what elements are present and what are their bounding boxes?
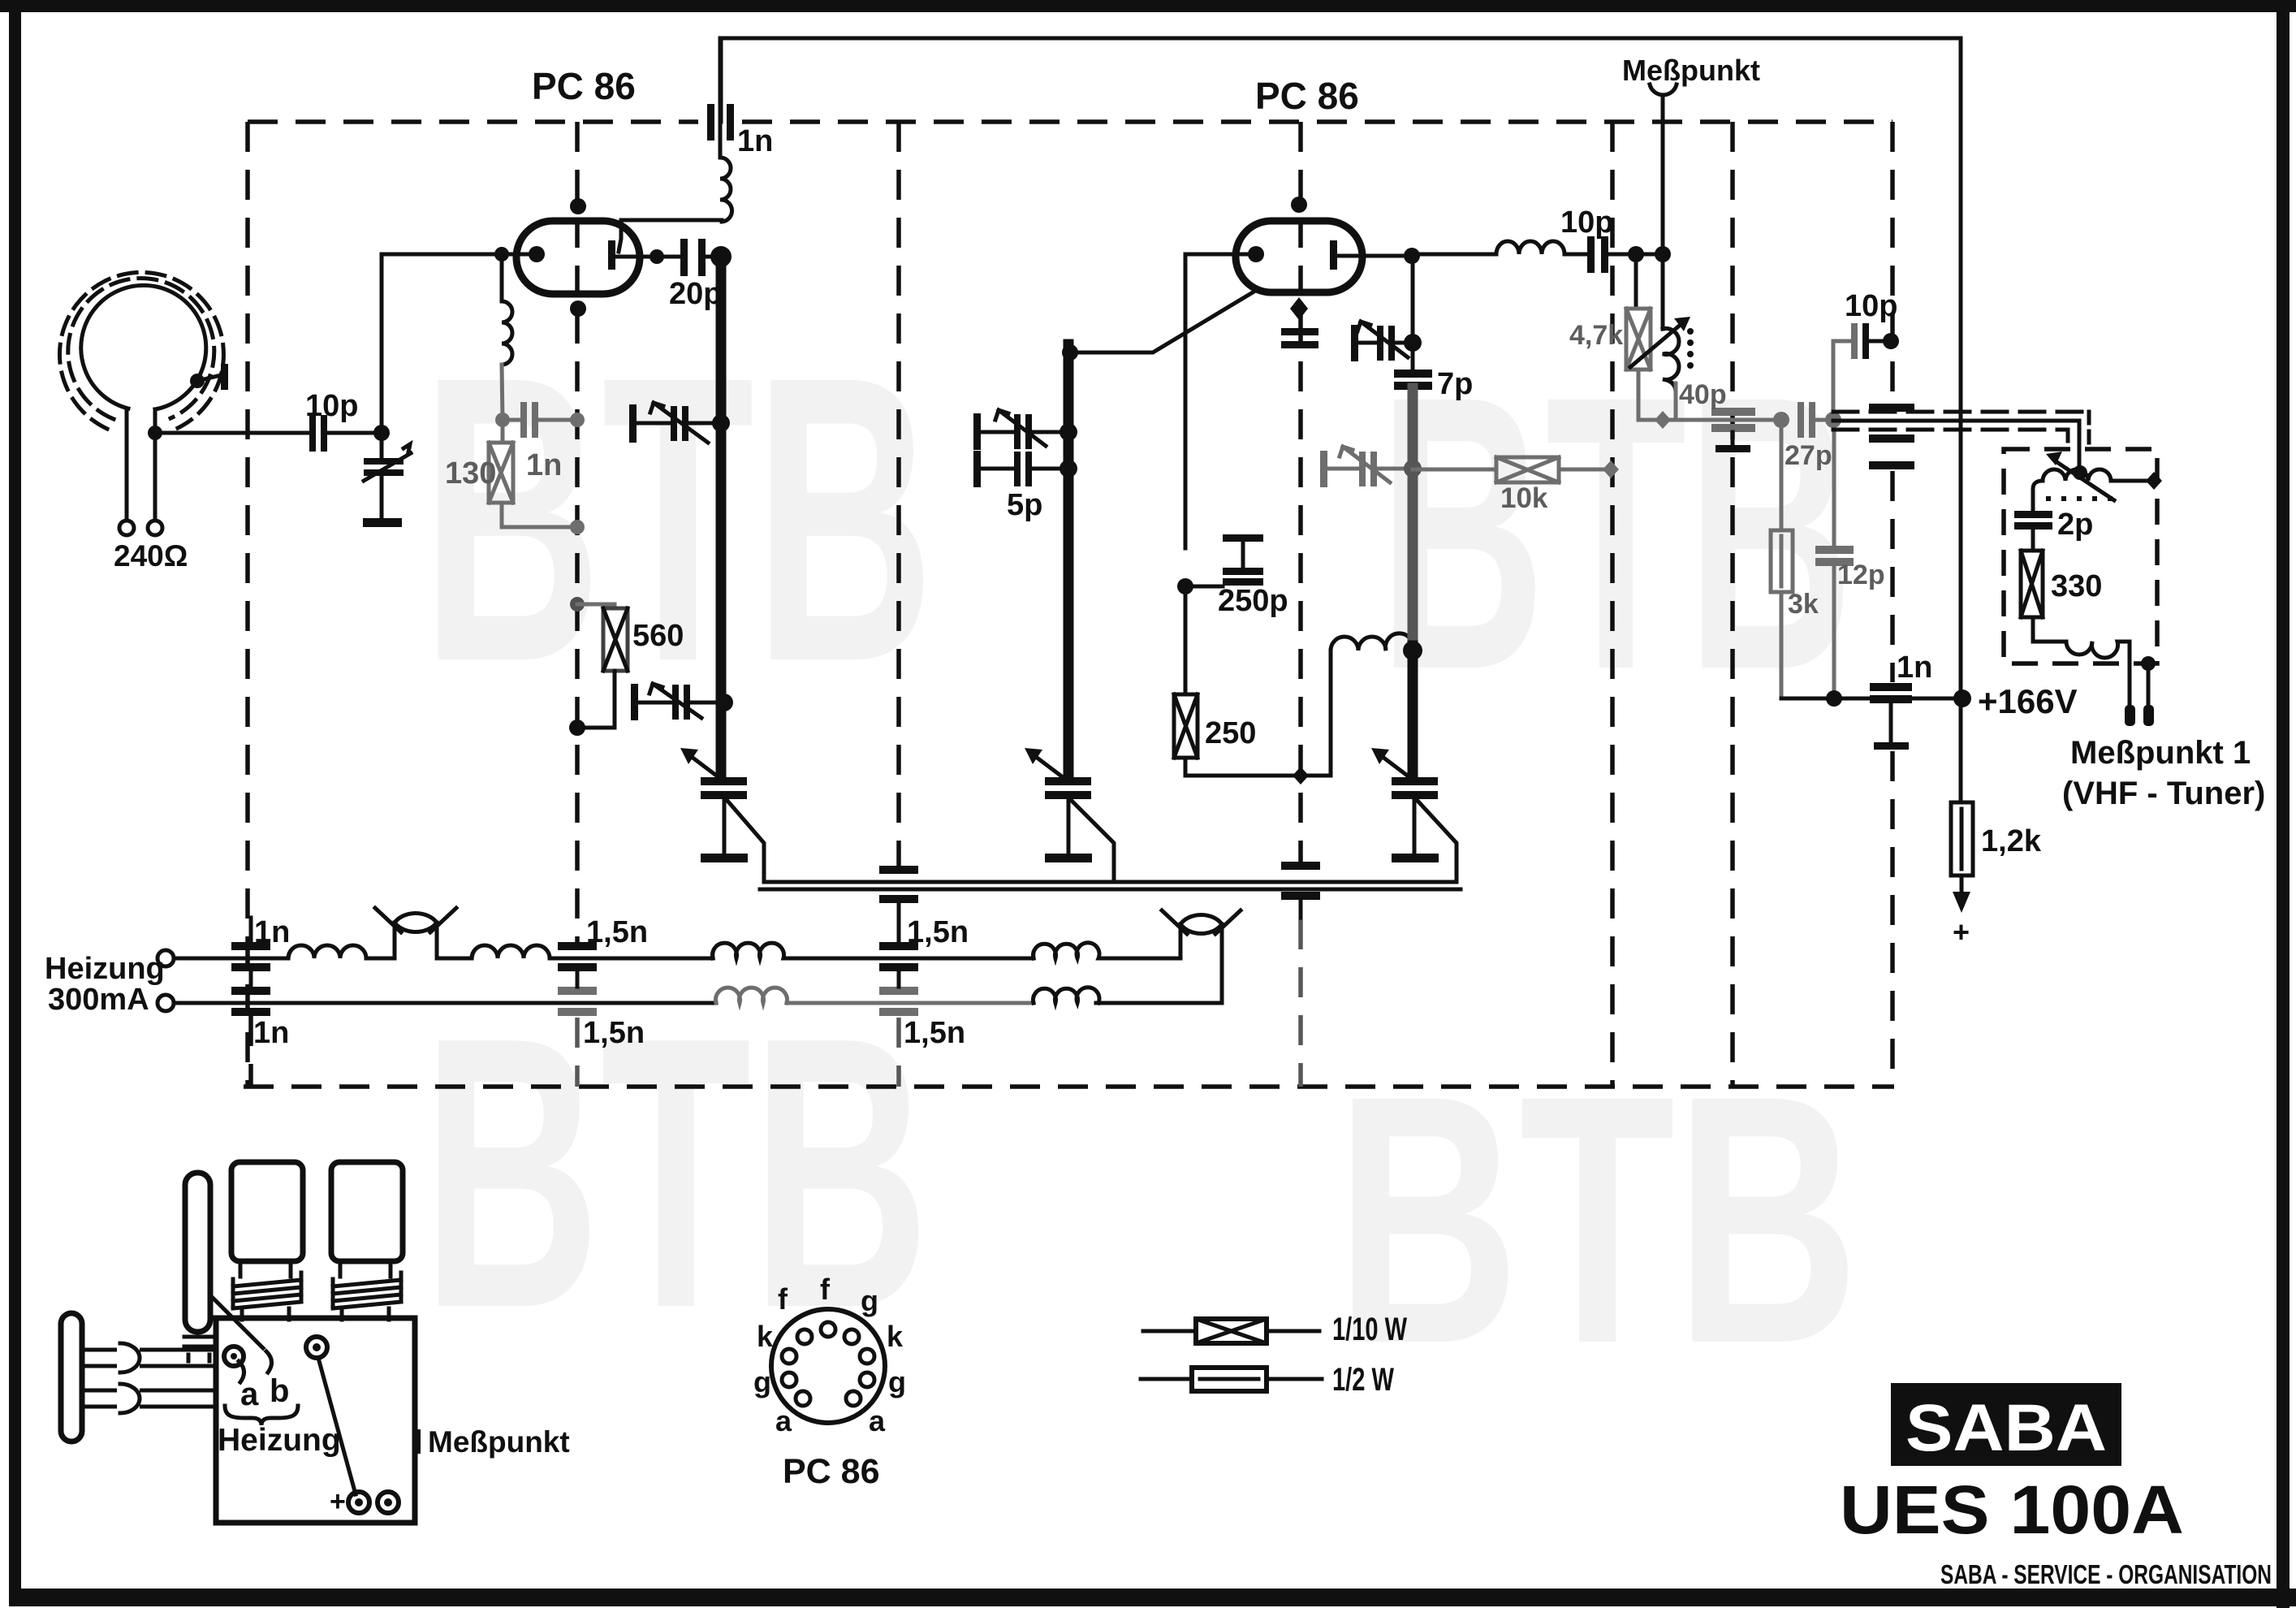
capacitor 1.5n heater upper x1107 [879,942,918,950]
svg-text:12p: 12p [1837,560,1885,590]
heater coil lower 3 [1034,988,1100,1003]
terminal a [224,1346,244,1366]
svg-text:1n: 1n [737,124,773,158]
dot on section line x1602 y955 [1293,767,1309,785]
ground bar tank2 [1045,854,1092,862]
wire 130 to section line [502,503,577,527]
capacitor 12p [1832,420,1836,546]
main tuner dashed box left edge [245,122,250,1087]
terminal plus [348,1492,369,1513]
T handle connector [61,1313,82,1442]
capacitor 5p row2 [973,451,981,487]
svg-text:1n: 1n [254,915,290,949]
node dot messpunkt line [1655,246,1671,262]
trimmer capacitor 5p row1 [973,413,981,450]
border frame bottom bar [9,1589,2296,1606]
arrow below 1.2k [1960,875,1964,893]
section dashed line x=1107 [896,122,901,867]
node A junction dot on feed [148,426,162,440]
svg-text:k: k [887,1320,904,1353]
antenna tap dot [190,374,205,388]
tank3 thick line black part [1408,646,1418,780]
tube2 anode wire [1337,254,1412,258]
heater terminal lower [158,995,174,1011]
VHF tuner dashed box [2004,449,2157,664]
rotor wire tank3 to chassis bus [1418,801,1457,882]
svg-text:Meßpunkt: Meßpunkt [428,1425,570,1459]
riser to 10p right [1832,341,1836,420]
svg-text:250: 250 [1205,716,1256,750]
capacitor 10p antenna [309,415,316,452]
VHF transformer coil [2033,469,2154,512]
svg-text:1n: 1n [526,448,562,482]
svg-text:10k: 10k [1500,482,1548,514]
anode supply solid line top [721,38,1961,122]
resistor 3k [1780,420,1784,530]
wire coil to cathode node [502,365,503,420]
heater crossover hop 2 [1180,914,1222,958]
oscillator coupling transformer coil [1663,328,1679,392]
tube2 grid terminal dot [1248,246,1264,262]
svg-text:Heizung: Heizung [218,1423,341,1458]
svg-text:20p: 20p [669,277,722,311]
svg-text:Meßpunkt: Meßpunkt [1622,54,1760,87]
svg-text:240Ω: 240Ω [114,539,188,573]
antenna trimmer cap to ground [380,433,384,460]
junction dot 3k [1773,412,1789,428]
antenna feed wire right [153,409,158,521]
tank2 thick line [1064,344,1074,780]
resistor 130 [501,420,505,443]
antenna rod [185,1173,210,1332]
feedthrough 1.5n on bus x1107 [879,866,918,874]
svg-text:PC 86: PC 86 [532,65,636,107]
variable capacitor tank2 [1045,777,1091,785]
border frame right bar [2277,0,2290,1608]
svg-text:BTB: BTB [1336,1022,1859,1417]
heater lower line segments [174,1001,716,1005]
ground bar tank3 [1392,854,1439,862]
stems x1107 [897,971,901,987]
wire 10p to messpunkt node [1608,253,1663,257]
svg-text:40p: 40p [1679,379,1727,410]
wire 4.7k to 40p line [1638,370,1663,420]
anode choke coil [720,158,732,222]
ground bar antenna trimmer [363,518,402,527]
tube can 1 winding [233,1273,301,1308]
junction dot 12p bottom [1826,690,1842,707]
chassis bus double line [764,880,1457,884]
capacitor 40p feedthrough on section line [1711,408,1755,416]
resistor 10k [1413,468,1496,472]
trimmer capacitor row2 tank1 [631,684,638,720]
svg-text:300mA: 300mA [48,983,149,1017]
tube can 2 base [342,1308,389,1320]
capacitor 10p right [1833,339,1851,344]
svg-text:+: + [1953,915,1970,949]
op-amp/tube PC86 triode 1 envelope [516,221,640,294]
tank1 top node dot [710,246,732,267]
wire 20p to tank node [703,255,721,259]
svg-text:1,5n: 1,5n [586,915,648,949]
Messpunkt lead [1661,98,1665,329]
svg-text:BTB: BTB [422,957,930,1388]
tube can 1 base [242,1308,289,1320]
heater upper line segments [174,957,288,961]
capacitor 1n top feedthrough plates [707,104,714,140]
capacitor 1.5n heater upper x711 [558,942,597,950]
svg-text:250p: 250p [1218,584,1288,618]
svg-text:Heizung: Heizung [45,952,165,986]
tube1 bottom dot [570,300,586,317]
VHF right junction dot [2146,472,2162,490]
section dashed line x=2134 [1730,122,1735,1087]
svg-text:f: f [778,1282,788,1316]
section dashed line x=1602 [1298,122,1303,862]
dot on section line x711 y896 [569,720,585,736]
svg-text:1n: 1n [1897,651,1932,685]
svg-text:10p: 10p [1845,289,1897,323]
svg-text:g: g [861,1284,878,1317]
grid coil L1 [500,257,504,301]
heater coil upper 4 [1034,943,1106,958]
measurement lead 1 [2128,642,2132,705]
svg-text:1/10 W: 1/10 W [1332,1312,1407,1347]
wire 560 to section line [577,671,615,728]
anode choke feed: 1n feedthrough top [719,38,723,158]
capacitor 1n heater upper x309 [231,942,270,950]
T handle prong upper [82,1350,216,1366]
capacitor 27p [1798,402,1804,438]
rotor wire tank2 to chassis bus [1072,801,1114,882]
tube1 anode wire to 20p [615,255,680,259]
svg-text:f: f [820,1273,831,1306]
tube2 top dot [1291,197,1307,213]
grid node junction dot [373,425,390,441]
dot on section line x711 y517 [570,413,585,427]
anode junction dot [650,249,664,264]
antenna terminal left [119,521,134,535]
tank3 thick line gray part [1408,388,1418,650]
wire antenna to 10p [155,431,309,435]
measurement lead 2 [2147,664,2151,705]
resistor 560 [603,608,628,671]
terminal big top [306,1337,327,1358]
resistor 330 [2031,530,2035,551]
capacitor 20p [680,239,688,276]
svg-text:k: k [757,1320,774,1353]
svg-text:3k: 3k [1788,589,1819,620]
heater coil upper 3 [713,943,791,958]
dot on section line x711 y649 [570,520,585,534]
feedthrough on bus x1602 [1281,862,1320,870]
tube1 anode bar [608,240,615,270]
antenna loop dashed outer arcs [68,279,214,419]
tuner unit tube can 2 [331,1162,403,1261]
Messpunkt hook [1650,84,1677,95]
socket pins [782,1322,874,1406]
grid terminal dot inside tube [529,246,545,262]
heater coil upper 1 [288,945,395,958]
antenna feed wire left [125,408,129,521]
ground bar tank1 [701,854,748,862]
anode coil to mixer out [1412,241,1587,254]
capacitor 7p [1394,370,1432,378]
resistor 250 [1184,586,1188,694]
svg-text:Meßpunkt 1: Meßpunkt 1 [2070,735,2251,771]
switch arm line [318,1358,356,1494]
svg-text:g: g [753,1365,771,1398]
main tuner dashed box right edge [1890,122,1895,406]
prong break arcs [117,1344,140,1372]
tube2 cathode feedthrough cap on section line [1281,328,1318,335]
border frame left bar [9,0,21,1604]
SABA logo block [1891,1383,2121,1466]
stems x309 [249,918,253,942]
svg-text:1,2k: 1,2k [1981,824,2042,858]
messpunkt tab [412,1429,421,1454]
svg-text:1,5n: 1,5n [583,1016,645,1050]
heater terminal upper [158,950,174,966]
svg-text:10p: 10p [1560,205,1613,240]
tube can 2 neck [340,1261,391,1277]
tank1 thick line [716,257,727,780]
antenna terminal right [148,521,162,535]
tube2 bottom dot [1290,297,1308,320]
svg-text:a: a [869,1404,886,1437]
trimmer capacitor at osc anode [1351,325,1358,361]
capacitor 1n cathode [503,418,520,422]
border frame top bar [0,0,2296,12]
B+ vertical line [1959,38,1963,802]
svg-text:5p: 5p [1007,488,1042,522]
trimmer capacitor osc row [1320,451,1327,487]
svg-text:PC 86: PC 86 [783,1452,880,1491]
resistor 1.2k [1951,802,1973,875]
main tuner dashed box top edge [248,119,698,124]
tuner unit tube can 1 [231,1162,303,1261]
T handle prong lower [82,1390,216,1407]
tube2 anode bar [1330,240,1337,270]
svg-text:7p: 7p [1437,367,1473,401]
wire to 40p feedthrough [1663,418,1781,422]
transformer adjust arrow [1630,323,1682,367]
heater crossover hop 1 [395,913,437,958]
svg-text:PC 86: PC 86 [1255,75,1359,117]
terminal b pointer [213,1298,272,1382]
terminal right [378,1492,399,1513]
grid wire dot [494,247,509,262]
svg-text:BTB: BTB [421,292,934,746]
oscillator tap coil [1331,633,1413,651]
triple link lines to VHF tuner [1833,410,2089,414]
svg-text:SABA - SERVICE - ORGANISATION: SABA - SERVICE - ORGANISATION [1940,1559,2272,1589]
capacitor 1n right feedthrough [1870,683,1912,691]
node dot 4.7k top [1628,246,1644,262]
heater upper line to coil2 [437,957,472,961]
heizung brace [225,1406,298,1425]
antenna loop [81,285,206,409]
tube can 2 winding [333,1273,401,1308]
stems x711 [576,971,580,987]
heater coil lower 2 [716,988,788,1003]
section dashed line x=1986 [1610,122,1615,1087]
resistor 4.7k [1634,254,1638,309]
svg-text:4,7k: 4,7k [1569,320,1623,351]
junction dot 27p out [1825,412,1841,428]
svg-text:a: a [240,1377,259,1412]
wire 10p to grid node [327,431,382,435]
tube PC86 triode 2 envelope [1236,221,1362,292]
capacitor 1.5n heater lower x711 [558,987,597,995]
svg-text:SABA: SABA [1905,1391,2107,1465]
svg-text:560: 560 [632,619,684,653]
svg-text:27p: 27p [1785,440,1832,471]
svg-text:330: 330 [2051,569,2102,603]
dot on section line x711 y744 [570,597,585,612]
heater return bend [1096,958,1222,1003]
capacitor 1.5n heater lower x1107 [879,987,918,995]
cathode node dot [495,413,510,427]
trimmer capacitor row1 tank1 [629,404,637,443]
anode to choke link [619,220,722,252]
variable capacitor tank3 [1392,777,1438,785]
svg-text:1/2 W: 1/2 W [1332,1362,1394,1398]
svg-text:130: 130 [445,456,496,491]
chassis box [216,1318,415,1523]
svg-text:(VHF - Tuner): (VHF - Tuner) [2062,776,2265,811]
legend 1/2W resistor [1141,1377,1192,1381]
tube2 grid wire [1185,254,1256,548]
rotor wire to chassis bus [727,801,764,882]
capacitor 10p mixer out [1587,236,1595,273]
feedthrough caps on shield x2331 [1869,404,1914,412]
wire grid node up to tube grid [382,254,535,433]
heater coil upper 2 [472,945,559,958]
bottom wire to +166V [1781,697,1962,701]
tube1 top dot [570,198,586,214]
svg-text:+: + [330,1486,346,1517]
wire to 560 [577,604,615,608]
section dashed line x=711 [575,122,580,942]
tap coil dot on tank3 [1403,641,1422,660]
main tuner dashed box bottom edge [244,1084,1894,1089]
capacitor 2p [2014,511,2052,518]
dot on section line x1986 y578 [1603,460,1619,478]
osc anode node dot [1404,248,1420,264]
svg-text:10p: 10p [305,389,358,423]
svg-text:UES 100A: UES 100A [1840,1472,2184,1548]
heater upper line to hop2 [1105,957,1180,961]
transformer core dots [1687,328,1694,369]
tube2 coupling wire to tank2 [1073,290,1257,352]
variable capacitor tank1 [701,777,747,785]
capacitor 1n heater lower x309 [231,987,270,995]
svg-text:1,5n: 1,5n [904,1016,965,1050]
legend 1/10W resistor [1143,1329,1196,1334]
svg-text:2p: 2p [2057,508,2093,542]
VHF bottom coil [2033,617,2130,664]
tank2 top dot [1062,344,1078,361]
wire 250 to osc tap [1185,651,1331,776]
heater upper line mid2 [790,957,1034,961]
VHF bottom dot [2141,656,2156,671]
svg-text:+166V: +166V [1978,682,2078,720]
antenna tap stub [197,375,221,381]
VHF coil adjust arrow [2056,461,2114,500]
capacitor 250p [1177,578,1193,594]
junction dot 40p line [1655,411,1671,429]
tube can 1 neck [240,1261,291,1277]
svg-text:1,5n: 1,5n [907,915,969,949]
PC86 socket circle [771,1309,885,1423]
VHF coil core dotted [2046,496,2116,501]
svg-text:g: g [888,1365,906,1398]
svg-text:1n: 1n [253,1016,289,1050]
antenna rod base bits [184,1337,214,1361]
heater upper line mid [559,957,713,961]
svg-text:a: a [775,1404,792,1437]
svg-text:b: b [270,1373,289,1409]
+166V node dot [1953,689,1971,707]
VHF coil junction dot [2073,465,2087,480]
